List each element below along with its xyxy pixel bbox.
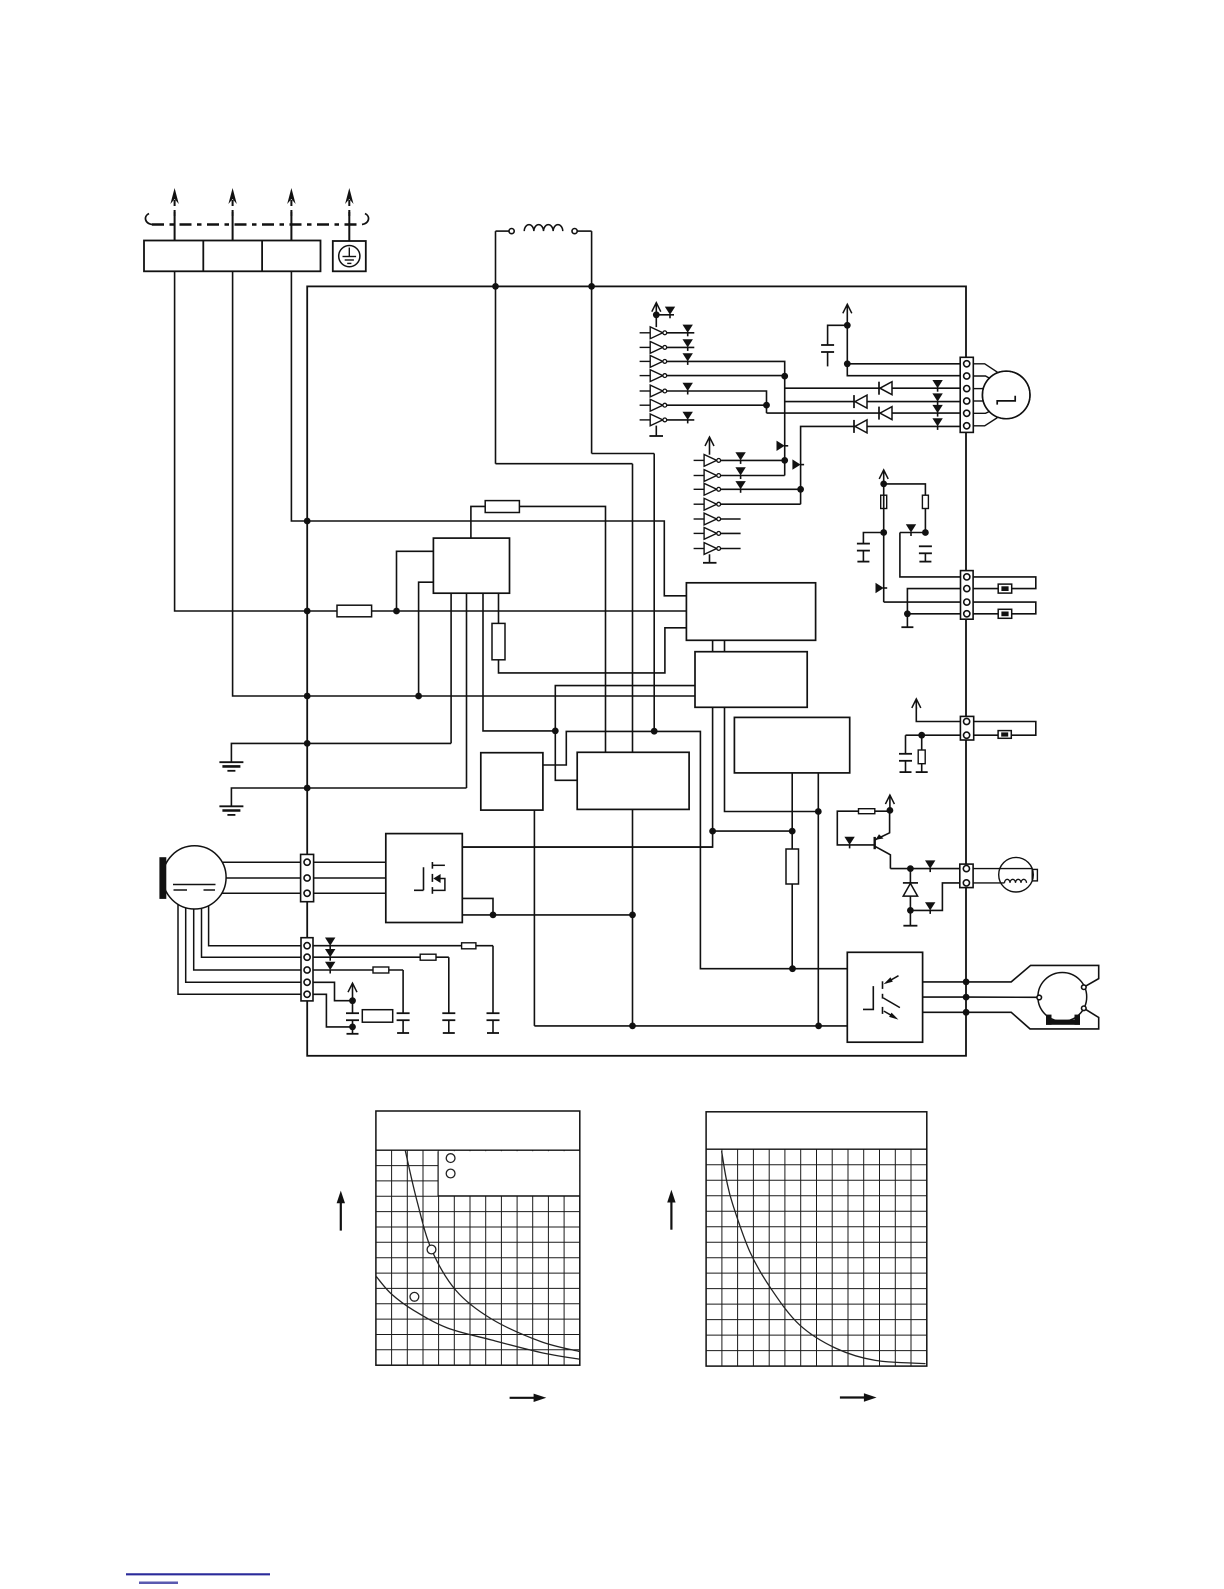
inverter U2-5 (694, 518, 705, 520)
node res-top (880, 481, 887, 488)
ground G1 (219, 761, 243, 763)
wire to CN2 pin3 (884, 601, 961, 603)
wire opto out3 (923, 1011, 967, 1013)
wire U1-1 output (667, 332, 695, 334)
PCB outline box (307, 286, 966, 1055)
node sense4 (349, 997, 356, 1004)
wire rail 611 to box B (307, 610, 686, 612)
chart 1 x axis arrow (510, 1397, 537, 1399)
ground gate array 1 (655, 426, 657, 436)
chart 2 header line (706, 1148, 927, 1150)
node rail696-left (304, 693, 311, 700)
node opto1 (963, 979, 970, 986)
wire compressor sense leads (209, 906, 301, 946)
node U1-34 (781, 373, 788, 380)
node Q1-collector (887, 807, 894, 814)
connector CN2 thermistors (961, 571, 974, 620)
wire emitter rail (890, 868, 959, 870)
node pin4-gnd (904, 610, 911, 617)
protective earth symbol (333, 241, 366, 271)
node rail1026-boxF (629, 1023, 636, 1030)
connector CN1 compressor (960, 357, 973, 432)
wire box G out2 (462, 898, 493, 915)
node link831-right (789, 828, 796, 835)
ground G2 (219, 805, 243, 807)
chart 1 legend box (438, 1151, 579, 1196)
capacitor C-b (919, 545, 932, 547)
wire opto out2 (923, 996, 967, 998)
resistor R-vert2 (786, 849, 799, 884)
inverter U2-3 (694, 488, 705, 490)
wire U1-7 output (667, 419, 695, 421)
wire box E bottom pin (533, 810, 535, 1026)
node boxC-pin1 (709, 828, 716, 835)
mains arrow 1 (174, 212, 176, 241)
node bus-L (492, 283, 499, 290)
wire U2-1 output (721, 459, 785, 461)
wire box F output down (632, 809, 634, 1026)
CT terminals (1082, 985, 1087, 990)
wire CN5 to box G (314, 861, 386, 863)
resistor R-base (859, 809, 875, 814)
supply arrow mid-right (883, 470, 885, 484)
resistor R-s3 (373, 967, 389, 973)
chart 2 x axis arrow (840, 1396, 867, 1398)
mains arrow 2 (232, 212, 234, 241)
chart 2 y axis arrow (670, 1199, 672, 1230)
wire U2-6 output (721, 532, 741, 534)
connector mark V (932, 393, 942, 401)
wire pin1 (847, 363, 960, 365)
capacitor C-s3 (402, 970, 404, 1013)
node rail521-left (304, 518, 311, 525)
diode D-fan (909, 869, 911, 883)
capacitor C-a (863, 533, 883, 544)
wire pin4 (907, 613, 960, 615)
wire to CN4 pin2 (910, 883, 959, 911)
connector mark fan2 (925, 902, 935, 910)
crankcase heater bar (159, 857, 166, 899)
compressor motor M1 (982, 371, 1030, 419)
footer rule (126, 1573, 270, 1575)
wire box D pin2 down (817, 773, 819, 1026)
wire box A pin2 down (466, 593, 468, 788)
connector mark W (932, 405, 942, 413)
wire res branch (884, 484, 926, 533)
node diode-bottom (907, 907, 914, 914)
chart 2 curve (722, 1151, 926, 1364)
wire box B to box C bus1 (712, 640, 714, 651)
wire bus 784 down (784, 376, 786, 475)
wire rail 788 ground link (231, 788, 466, 806)
node bus-R (588, 283, 595, 290)
box G IPM (386, 834, 463, 923)
wire mains N to rail 696 (233, 271, 308, 696)
node sense5 (349, 1024, 356, 1031)
node bus800-g3 (797, 486, 804, 493)
resistor R-vert1 (492, 623, 505, 659)
resistor R-611 (337, 605, 372, 617)
diode D-V (853, 395, 855, 408)
chart 1 y axis arrow (340, 1200, 342, 1231)
inverter U1-7 (640, 419, 651, 421)
wire rail 731b (543, 731, 847, 968)
transistor Q1 (874, 837, 876, 849)
wire box A top pin / fuse rail (471, 506, 606, 752)
wire box A left pin1 (397, 551, 434, 611)
node bus784-g1 (781, 457, 788, 464)
wire to CN2 pin1 (900, 533, 961, 577)
diode D-X (853, 420, 855, 433)
diode D-U (878, 382, 880, 395)
node CN3-RC (918, 732, 925, 739)
wire inductor left leg (495, 231, 497, 464)
wire rail 521 to box B pin1 (307, 521, 686, 596)
connector CN4 fan (960, 864, 973, 888)
fuse F1 (485, 501, 519, 513)
node rail743-left (304, 740, 311, 747)
thermistor TH1 (998, 584, 1012, 593)
gate2 supply arrow (709, 437, 711, 455)
box B controller (686, 583, 815, 641)
resistor R-b (922, 495, 928, 508)
wire U1-4 output (667, 375, 785, 377)
opto box U3 (847, 952, 922, 1042)
wire mains L to rail 611 (175, 271, 308, 611)
inverter U1-4 (640, 375, 651, 377)
line filter inductor L1 (496, 230, 510, 232)
ground pin4 (906, 614, 908, 627)
current transformer clamp (966, 965, 1099, 986)
resistor R-s2 (420, 954, 436, 960)
ground sense (352, 1027, 354, 1034)
sensor S3 (998, 731, 1011, 739)
inverter U2-4 (694, 503, 705, 505)
inverter U2-1 (694, 459, 705, 461)
sensor S3 loop (974, 722, 1036, 736)
connector CN3 (960, 716, 973, 740)
mains arrow 3 (290, 212, 292, 241)
capacitor C-s1 (492, 946, 494, 1014)
wire U2-5 output (721, 518, 741, 520)
wire U2-4 output (721, 503, 801, 505)
wire base loop (837, 811, 890, 845)
supply arrow Q1 (889, 795, 891, 810)
node resistor-bottom (789, 965, 796, 972)
component box small (362, 1010, 392, 1023)
wire rail 1026 (534, 1025, 847, 1027)
node emitter-diode (907, 865, 914, 872)
capacitor C-s2 (448, 957, 450, 1013)
wire rail 696 to box C (307, 695, 695, 697)
box E (481, 753, 543, 810)
node hub1 (552, 728, 559, 735)
node pin1-branch (844, 360, 851, 367)
node rail611-left (304, 608, 311, 615)
connector mark U (932, 380, 942, 388)
chart 1 curve upper (405, 1151, 579, 1352)
wire opto out1 (923, 981, 967, 983)
wire CN6 pin1 RC (313, 945, 493, 947)
node D2 (815, 808, 822, 815)
dash-dot cable boundary (152, 223, 362, 225)
wire link 831 (713, 830, 793, 832)
node opto3 (963, 1009, 970, 1016)
wire box B to box C bus2 (724, 640, 726, 651)
resistor R-a (881, 495, 887, 508)
wire inductor right to rail B (592, 453, 655, 455)
terminal block TB1 (144, 241, 321, 272)
connector mark left-branch (876, 583, 884, 593)
wire motor phase X (801, 426, 961, 504)
inverter U1-1 (640, 332, 651, 334)
wire CN6 pin3 RC (313, 969, 403, 971)
wire tee 532 (900, 532, 926, 534)
gate1 supply connector mark (656, 314, 674, 316)
CT bottom bar (1046, 1020, 1080, 1025)
chart 1 header line (376, 1149, 580, 1151)
wire CN2 pin2-pin4 ground (907, 589, 960, 614)
wire box A pin1 down (450, 593, 452, 743)
connector CN5 (301, 854, 314, 901)
footer text remnant (139, 1582, 178, 1585)
wire U1-2 output (667, 346, 695, 348)
chart 2 grid (706, 1149, 927, 1366)
wire box D pin1 down (791, 773, 793, 969)
wire rail 743 ground link (231, 743, 451, 762)
wire mains 3 to rail 521 (291, 271, 307, 521)
inverter U2-7 (694, 548, 705, 550)
chart 1 grid (376, 1150, 580, 1365)
wire U2-3 output (721, 488, 801, 490)
node right-branch (922, 529, 929, 536)
inverter U1-2 (640, 346, 651, 348)
connector CN6 (301, 938, 313, 1001)
node cap-top (844, 322, 851, 329)
capacitor C-s4 (352, 1001, 354, 1014)
wire to connector pin1 (847, 325, 960, 375)
wire box A pin3 to rail 731a (483, 593, 555, 731)
wire motor phase V (785, 401, 961, 403)
wire hub1 to box C pin1 (555, 686, 695, 731)
wire box C pin2 to node D2 (725, 707, 819, 811)
resistor R-s1 (462, 943, 476, 949)
connector mark bus800 (792, 459, 800, 469)
capacitor C-cn3 (905, 735, 907, 754)
chart 1 curve lower (376, 1276, 580, 1359)
diode D-W (878, 407, 880, 420)
supply arrow CN3 (916, 707, 960, 722)
thermistor TH2 loop (973, 602, 1036, 614)
inverter U2-2 (694, 475, 705, 477)
IGBT symbol in box G (414, 867, 424, 890)
wire left branch (883, 484, 885, 602)
chart 1 legend marker 2 (446, 1169, 455, 1178)
mains arrow 4 (348, 212, 350, 241)
wire U2-2 output (721, 475, 785, 477)
compressor shell (163, 846, 226, 909)
node boxF-mid (629, 912, 636, 919)
wire box G out3 (462, 914, 632, 916)
box D (734, 717, 849, 773)
connector mark bus784 (777, 441, 785, 451)
wire CN6 pin5 (313, 994, 353, 1027)
ground fan (909, 910, 911, 925)
connector mark emitter (925, 860, 935, 868)
supply arrow top-right (846, 304, 848, 325)
wire U1-3 output (667, 361, 785, 376)
box F (577, 752, 689, 809)
chart 2 frame (706, 1112, 927, 1366)
box C (695, 652, 807, 708)
node opto2 (963, 994, 970, 1001)
node rail731b-inductor (651, 728, 658, 735)
thermistor TH2 (998, 609, 1012, 618)
wire CN6 pin2 RC (313, 956, 449, 958)
node left-branch (880, 529, 887, 536)
wire CN3 pin2 RC (906, 734, 961, 736)
supply arrow sense (352, 983, 354, 1001)
connector mark X (932, 418, 942, 426)
box A power supply (433, 538, 509, 593)
fan motor M2 (973, 868, 1032, 870)
wire CN6 pin4 (313, 982, 353, 1000)
opto symbol (863, 986, 873, 1009)
node rail1026-boxD (815, 1023, 822, 1030)
node rail788-left (304, 785, 311, 792)
wire compressor leads (222, 861, 300, 863)
thermistor TH1 loop (973, 577, 1036, 589)
wire hub1 to box F pin (555, 731, 577, 780)
resistor R-cn3 (921, 735, 923, 750)
chart 1 data point 2 (410, 1292, 419, 1301)
gate1 supply node (655, 315, 657, 327)
wire U2-7 output (721, 548, 741, 550)
wire motor phase W (767, 412, 961, 414)
wire inductor right leg (591, 231, 593, 453)
chart 1 data point 1 (427, 1245, 436, 1254)
inverter U2-6 (694, 532, 705, 534)
wire U1-6 output (667, 404, 767, 406)
fan motor winding (973, 882, 1004, 884)
inverter U1-6 (640, 404, 651, 406)
node rail611-boxA (393, 608, 400, 615)
capacitor C-top (828, 325, 848, 345)
wire box A left pin2 (419, 582, 434, 696)
connector mark base (844, 837, 854, 845)
wire box G out1 (462, 846, 712, 848)
gate1 supply arrow (655, 303, 657, 315)
node boxG-out2 (490, 912, 497, 919)
ground gate array 2 (709, 554, 711, 563)
inverter U1-5 (640, 390, 651, 392)
chart 1 legend marker 1 (446, 1154, 455, 1163)
chart 1 frame (376, 1111, 580, 1365)
wire box C pin1 to box G (462, 707, 712, 847)
wire U1-5 output (667, 391, 767, 413)
wire motor phase U (785, 387, 961, 389)
inverter U1-3 (640, 360, 651, 362)
wire box A pin4 via resistor to box B pin3 (499, 593, 687, 673)
node rail696-boxA (415, 693, 422, 700)
wire inductor left to box F (496, 463, 633, 465)
wire M1 leads (973, 364, 997, 372)
node U1-56 (763, 402, 770, 409)
